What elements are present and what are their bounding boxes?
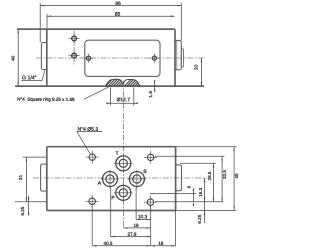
svg-text:16.3: 16.3 <box>198 187 203 196</box>
upper crosshair hole <box>69 33 80 44</box>
label N.4 D5.3 bolt holes <box>77 127 103 154</box>
svg-text:6.25: 6.25 <box>197 214 202 223</box>
port A <box>101 170 119 188</box>
pocket pin hole left <box>84 54 93 63</box>
svg-text:31: 31 <box>18 175 24 181</box>
dimension 10.3 <box>136 214 151 220</box>
port B <box>128 170 146 188</box>
svg-text:40: 40 <box>11 55 17 61</box>
svg-text:A: A <box>98 181 102 187</box>
svg-text:B: B <box>143 169 147 175</box>
left end cap plug G1/4 <box>41 43 46 70</box>
svg-text:6: 6 <box>187 185 192 188</box>
svg-text:19: 19 <box>133 223 139 228</box>
right locating tab <box>176 165 182 191</box>
pocket pin hole right <box>150 54 159 63</box>
vertical axis through crosshair holes <box>73 31 75 65</box>
extension lines below for horizontal dims <box>92 188 175 246</box>
svg-text:32.5: 32.5 <box>222 170 227 179</box>
dimension 1.6 seal protrusion <box>148 80 155 97</box>
bolt hole bottom-left <box>86 195 99 208</box>
dimension 16.3 and 6.25 shared line <box>197 178 206 224</box>
horizontal centerline bottom view <box>33 177 207 179</box>
dimension 19 <box>123 223 150 229</box>
bolt hole top-left <box>86 151 99 164</box>
label N.4 square ring <box>17 86 110 102</box>
svg-text:85: 85 <box>115 12 121 18</box>
dimension 40 height <box>11 29 19 86</box>
svg-text:40.5: 40.5 <box>104 241 113 246</box>
dimension 27.8 <box>111 232 151 238</box>
side view horizontal centerline <box>36 57 204 59</box>
top face pocket recess <box>85 40 160 76</box>
valve body side view outline <box>15 29 204 86</box>
dimension 18 <box>151 241 176 247</box>
svg-text:P: P <box>111 195 115 201</box>
square ring seal mound with hatching <box>103 78 148 86</box>
svg-text:T: T <box>115 151 118 157</box>
dimension 20 <box>194 58 203 86</box>
label G 1/4 port <box>21 70 45 81</box>
left locating tab <box>41 164 47 191</box>
bolt hole top-right <box>144 151 157 164</box>
dimension 40.5 <box>92 241 151 247</box>
svg-text:6.25: 6.25 <box>20 206 25 215</box>
right end nut <box>181 49 183 67</box>
dimension 6 <box>187 185 195 206</box>
dimension 85 body length <box>47 12 175 29</box>
vertical centerline through T and P <box>122 81 124 229</box>
right end cap <box>175 40 181 69</box>
lower crosshair hole <box>69 50 80 61</box>
dimension 26.5 <box>207 163 214 202</box>
svg-text:18: 18 <box>158 241 164 246</box>
extension lines right side <box>150 147 237 211</box>
svg-text:N°4 Square ring 9.25 x 1.68: N°4 Square ring 9.25 x 1.68 <box>17 97 75 102</box>
port P <box>114 184 132 202</box>
dimension 31 <box>18 157 27 202</box>
dimension 96 overall length <box>40 1 181 43</box>
svg-text:45: 45 <box>234 173 239 179</box>
svg-text:10.3: 10.3 <box>138 214 147 219</box>
dimension 6.25 left <box>20 196 29 216</box>
svg-text:27.8: 27.8 <box>128 232 137 237</box>
svg-text:20: 20 <box>194 64 200 70</box>
bolt hole bottom-right <box>144 196 157 209</box>
svg-text:26.5: 26.5 <box>207 171 212 180</box>
port T <box>114 154 132 172</box>
port face body outline <box>47 147 176 211</box>
svg-text:96: 96 <box>115 1 121 7</box>
dimension 45 <box>233 147 239 211</box>
dimension 32.5 <box>221 156 227 202</box>
svg-text:1.6: 1.6 <box>148 91 153 98</box>
dimension D12.7 seal <box>106 88 138 106</box>
extension lines left side <box>15 157 47 202</box>
